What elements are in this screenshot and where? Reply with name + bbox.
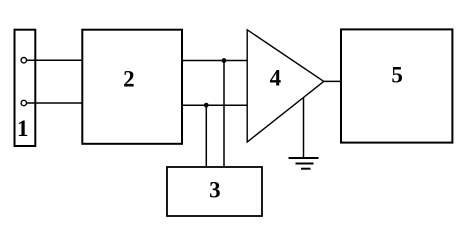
svg-text:3: 3 <box>209 177 221 202</box>
svg-text:2: 2 <box>123 66 135 91</box>
svg-text:4: 4 <box>270 66 282 91</box>
svg-text:1: 1 <box>17 116 29 141</box>
svg-text:5: 5 <box>391 62 403 87</box>
